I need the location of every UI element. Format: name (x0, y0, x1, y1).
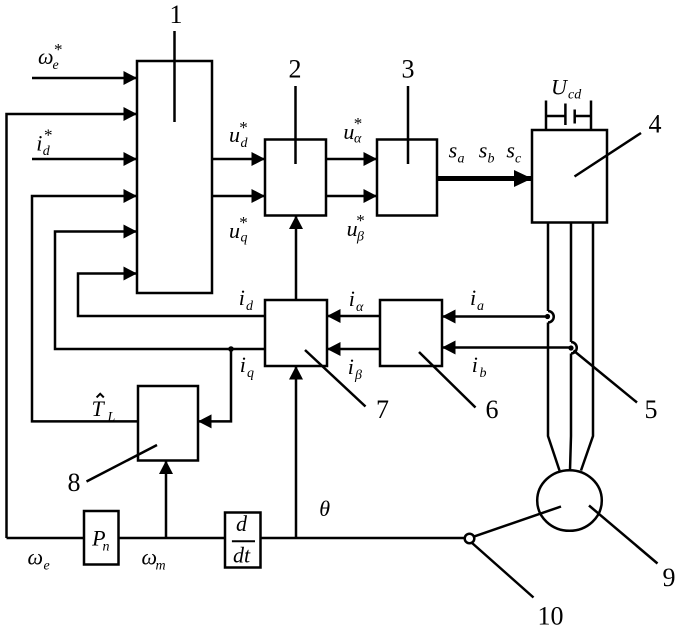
svg-text:*: * (44, 126, 53, 145)
wire i_a sensor tap to block 6 (442, 315, 548, 318)
svg-text:s: s (479, 138, 488, 163)
svg-text:T: T (92, 396, 106, 421)
wire omega_e feedback up to controller input 2 (7, 114, 138, 538)
label d/dt fraction bar (232, 540, 255, 542)
svg-text:i: i (36, 131, 42, 156)
node current sensor tap dot i_b (568, 345, 573, 350)
svg-text:*: * (354, 114, 363, 133)
leader line label 5 (574, 351, 638, 403)
svg-text:s: s (506, 138, 515, 163)
block 2 dq to alpha-beta transform (265, 140, 326, 216)
svg-text:cd: cd (568, 88, 582, 103)
wire i_alpha block 6 to block 7 (327, 315, 380, 318)
block 6 abc to alpha-beta transform (380, 300, 442, 366)
wire angle from block 7 up into block 2 (295, 216, 298, 301)
node junction dot on i_q line (228, 346, 234, 352)
svg-text:2: 2 (289, 55, 302, 84)
svg-text:θ: θ (319, 496, 330, 521)
capacitor dc-bus right lead (590, 101, 593, 131)
wire phase b line from inverter to motor (570, 223, 573, 343)
svg-text:L: L (107, 410, 116, 425)
svg-text:b: b (488, 152, 495, 167)
svg-text:n: n (103, 540, 110, 555)
svg-text:m: m (156, 559, 166, 574)
wire i_d* reference input 3 (32, 158, 137, 161)
block 3 SVPWM (377, 140, 437, 216)
svg-text:a: a (477, 299, 484, 314)
svg-text:q: q (241, 231, 248, 246)
svg-text:ω: ω (38, 44, 54, 69)
svg-text:*: * (239, 213, 248, 232)
wire main shaft line (7, 537, 465, 540)
junction 10 encoder circle (465, 534, 475, 544)
leader line label 6 (419, 352, 476, 408)
svg-text:i: i (239, 285, 245, 310)
svg-text:e: e (44, 559, 50, 574)
wire i_q branch into block 8 (198, 349, 231, 421)
wire omega_m up into block 8 (165, 461, 168, 539)
block 1 controller (137, 61, 212, 293)
svg-text:a: a (458, 152, 465, 167)
block 4 inverter (532, 130, 607, 223)
wire phase a line from inverter to motor (547, 223, 550, 312)
svg-text:*: * (356, 211, 365, 230)
block P_n pole pairs (84, 511, 119, 565)
capacitor left connector (546, 115, 565, 118)
wire u_beta* block 2 to block 3 (326, 195, 377, 198)
wire u_q* block 1 to block 2 (212, 195, 265, 198)
svg-text:d: d (43, 144, 51, 159)
wire i_beta block 6 to block 7 (327, 348, 380, 351)
leader line label 2 (294, 86, 297, 164)
leader line label 4 (575, 133, 642, 177)
svg-text:d: d (236, 511, 248, 536)
svg-text:b: b (480, 366, 487, 381)
svg-text:s: s (449, 138, 458, 163)
wire theta from shaft line up into block 7 (295, 366, 298, 538)
wire u_alpha* block 2 to block 3 (326, 158, 377, 161)
svg-text:7: 7 (376, 395, 389, 424)
capacitor left plate (564, 104, 567, 126)
svg-text:9: 9 (663, 563, 676, 592)
leader line label 7 (305, 350, 366, 407)
wire u_d* block 1 to block 2 (212, 158, 265, 161)
wire shaft diagonal from junction 10 to motor (474, 507, 561, 537)
svg-text:i: i (349, 286, 355, 311)
wire i_b sensor tap to block 6 (442, 346, 571, 349)
svg-text:α: α (356, 300, 364, 315)
svg-text:*: * (54, 40, 63, 59)
wire T_L hat feedback from block 8 to controller input 4 (32, 196, 138, 421)
svg-text:β: β (354, 368, 362, 383)
motor 9 circle (537, 470, 602, 531)
capacitor right plate (573, 110, 576, 124)
svg-text:1: 1 (170, 0, 183, 29)
wire i_q feedback from block 7 to controller input 5 (55, 232, 265, 350)
block d/dt differentiator (225, 513, 261, 568)
svg-text:e: e (53, 58, 59, 73)
wire i_d feedback from block 7 to controller input 6 (78, 274, 265, 317)
svg-text:d: d (246, 299, 254, 314)
svg-text:8: 8 (68, 468, 81, 497)
svg-text:i: i (470, 285, 476, 310)
capacitor right connector (575, 115, 591, 118)
svg-text:5: 5 (645, 395, 658, 424)
svg-text:α: α (354, 132, 362, 147)
svg-text:3: 3 (402, 55, 415, 84)
block 8 load torque observer (138, 386, 198, 461)
leader line label 3 (407, 86, 410, 164)
svg-text:4: 4 (649, 110, 662, 139)
svg-text:U: U (551, 75, 569, 100)
svg-text:*: * (239, 118, 248, 137)
svg-text:i: i (240, 352, 246, 377)
svg-text:c: c (515, 152, 522, 167)
svg-text:i: i (348, 354, 354, 379)
leader line label 9 (589, 506, 658, 564)
leader line label 10 (472, 543, 534, 598)
capacitor dc-bus left lead (545, 101, 548, 131)
svg-text:i: i (472, 352, 478, 377)
svg-text:q: q (247, 366, 254, 381)
svg-text:10: 10 (538, 602, 564, 630)
svg-text:6: 6 (486, 395, 499, 424)
leader line label 8 (87, 445, 158, 482)
leader line label 1 (173, 31, 176, 122)
svg-text:ω: ω (28, 544, 44, 569)
wire omega_e* reference input 1 (32, 77, 137, 80)
wire phase c line from inverter to motor (581, 223, 593, 471)
svg-text:d: d (241, 136, 249, 151)
svg-text:β: β (356, 230, 364, 245)
wire s_a s_b s_c thick bus block 3 to block 4 (437, 176, 532, 181)
svg-text:dt: dt (233, 543, 251, 568)
node current sensor tap dot i_a (545, 314, 550, 319)
block 7 alpha-beta to dq transform (265, 300, 327, 366)
